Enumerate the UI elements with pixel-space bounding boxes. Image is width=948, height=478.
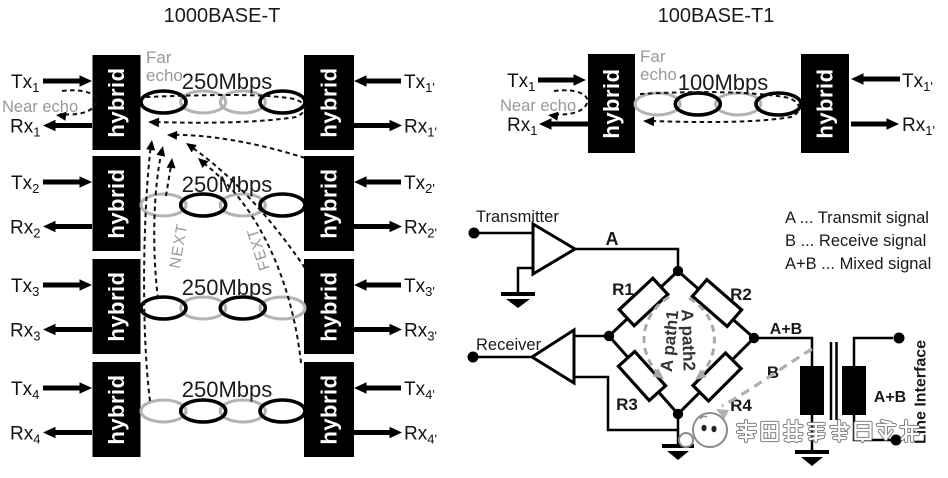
svg-text:1000BASE-T: 1000BASE-T bbox=[164, 5, 281, 27]
svg-text:250Mbps: 250Mbps bbox=[182, 275, 273, 300]
svg-text:R1: R1 bbox=[612, 280, 634, 299]
svg-text:hybrid: hybrid bbox=[104, 67, 129, 137]
svg-text:A+B: A+B bbox=[874, 389, 906, 406]
svg-text:Near echo: Near echo bbox=[2, 98, 78, 116]
svg-text:B ... Receive signal: B ... Receive signal bbox=[785, 232, 926, 250]
svg-text:hybrid: hybrid bbox=[317, 271, 342, 341]
svg-text:hybrid: hybrid bbox=[317, 374, 342, 444]
svg-text:A ... Transmit signal: A ... Transmit signal bbox=[785, 209, 929, 227]
svg-text:hybrid: hybrid bbox=[813, 68, 838, 138]
svg-text:hybrid: hybrid bbox=[104, 271, 129, 341]
svg-text:hybrid: hybrid bbox=[599, 68, 624, 138]
svg-text:Near echo: Near echo bbox=[500, 97, 576, 115]
svg-text:A+B ... Mixed signal: A+B ... Mixed signal bbox=[785, 255, 931, 273]
svg-text:A path2: A path2 bbox=[677, 309, 698, 371]
svg-text:hybrid: hybrid bbox=[317, 67, 342, 137]
svg-text:hybrid: hybrid bbox=[317, 168, 342, 238]
svg-text:echo: echo bbox=[146, 66, 183, 85]
svg-text:250Mbps: 250Mbps bbox=[182, 377, 273, 402]
svg-text:hybrid: hybrid bbox=[104, 374, 129, 444]
svg-text:Receiver: Receiver bbox=[476, 336, 542, 354]
svg-text:100BASE-T1: 100BASE-T1 bbox=[658, 5, 775, 27]
svg-text:R3: R3 bbox=[616, 395, 638, 414]
svg-text:hybrid: hybrid bbox=[104, 168, 129, 238]
svg-text:R2: R2 bbox=[730, 285, 752, 304]
svg-text:Far: Far bbox=[146, 48, 172, 67]
svg-text:250Mbps: 250Mbps bbox=[182, 69, 273, 94]
svg-text:echo: echo bbox=[640, 65, 677, 84]
svg-text:A: A bbox=[606, 229, 619, 249]
svg-text:A+B: A+B bbox=[770, 321, 802, 338]
svg-text:Transmitter: Transmitter bbox=[476, 208, 559, 226]
svg-text:Far: Far bbox=[640, 47, 666, 66]
